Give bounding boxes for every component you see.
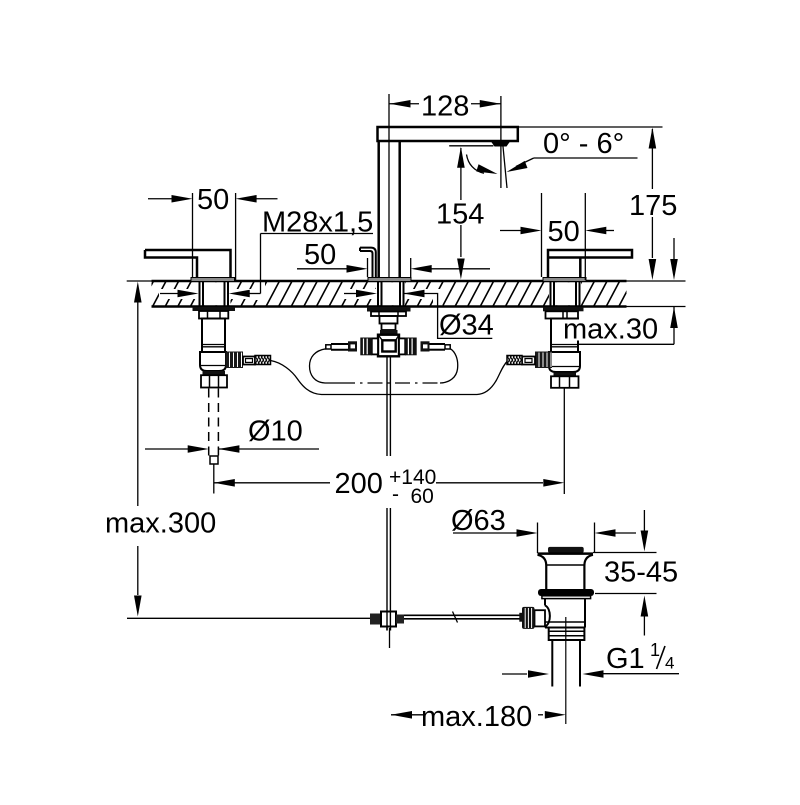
svg-text:G1: G1 bbox=[606, 643, 645, 675]
svg-text:154: 154 bbox=[436, 199, 484, 231]
svg-text:35-45: 35-45 bbox=[604, 557, 678, 589]
svg-text:Ø34: Ø34 bbox=[439, 310, 494, 342]
svg-text:max.300: max.300 bbox=[105, 508, 216, 540]
svg-text:4: 4 bbox=[665, 654, 674, 673]
svg-text:1: 1 bbox=[650, 640, 660, 660]
svg-text:Ø10: Ø10 bbox=[248, 416, 303, 448]
svg-text:60: 60 bbox=[411, 485, 434, 508]
svg-text:max.180: max.180 bbox=[421, 701, 532, 733]
svg-text:Ø63: Ø63 bbox=[451, 505, 506, 537]
svg-text:175: 175 bbox=[629, 190, 677, 222]
svg-text:200: 200 bbox=[335, 468, 383, 500]
svg-text:50: 50 bbox=[548, 216, 580, 248]
svg-text:-: - bbox=[392, 483, 399, 506]
svg-text:0° - 6°: 0° - 6° bbox=[543, 128, 624, 160]
svg-text:128: 128 bbox=[421, 91, 469, 123]
svg-text:50: 50 bbox=[197, 184, 229, 216]
svg-text:50: 50 bbox=[304, 239, 336, 271]
svg-text:max.30: max.30 bbox=[563, 314, 658, 346]
